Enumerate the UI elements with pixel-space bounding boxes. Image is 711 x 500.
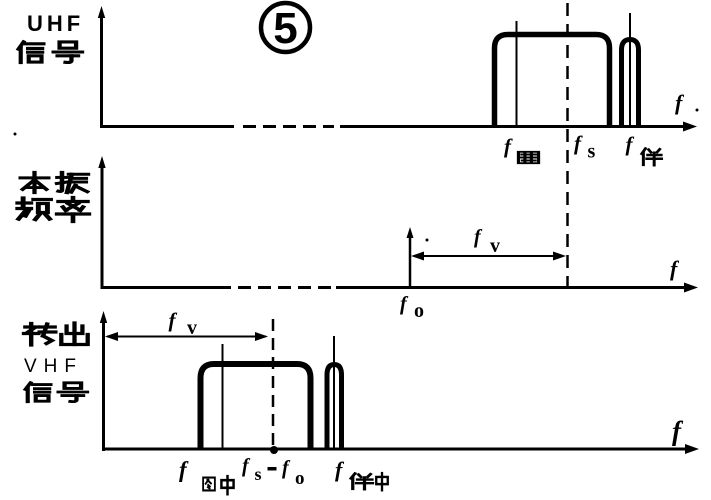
频率 label (18, 198, 89, 222)
dashed line fs (vertical, through top and middle diagrams) (566, 3, 569, 287)
f0 label (middle) (400, 293, 424, 322)
svg-text:f: f (574, 131, 583, 155)
转出 label (24, 323, 88, 345)
信号 label (bottom) (25, 383, 87, 402)
dashed line fs-f0 (bottom) (270, 319, 278, 454)
svg-text:f: f (670, 256, 680, 281)
svg-text:f: f (474, 226, 483, 248)
svg-text:VHF: VHF (24, 356, 83, 377)
sound carrier band (top) (622, 40, 639, 129)
f_tuzhong label (179, 457, 234, 494)
video carrier line (bottom) (222, 344, 224, 448)
f_banzhong label (335, 457, 388, 490)
svg-text:f: f (335, 457, 345, 482)
fv double arrow (middle) (411, 252, 566, 261)
svg-text:o: o (414, 300, 424, 322)
top big band (image channel) (495, 35, 610, 129)
fs-f0 label (242, 455, 305, 489)
top vertical axis (98, 6, 105, 128)
circled figure number 5 (261, 3, 310, 53)
svg-text:f: f (400, 293, 409, 315)
sound carrier line (bottom) (333, 336, 335, 448)
本振 label (21, 172, 88, 192)
f_s label (574, 131, 596, 163)
svg-text:f: f (504, 134, 513, 158)
信号 label (top) (18, 42, 82, 63)
svg-text:f: f (242, 455, 251, 477)
top horizontal axis (100, 122, 697, 132)
video carrier line (top) (516, 21, 518, 126)
svg-text:f: f (179, 457, 189, 482)
svg-text:f: f (169, 308, 178, 332)
bottom horizontal axis (102, 444, 699, 454)
f_tu label (504, 134, 539, 163)
svg-text:f: f (675, 90, 685, 115)
fv label (middle) (474, 226, 500, 257)
middle horizontal axis (101, 283, 698, 293)
sound carrier line (top) (629, 13, 631, 126)
svg-text:UHF: UHF (27, 11, 84, 36)
bottom vertical axis (100, 311, 107, 451)
local oscillator line f0 (407, 227, 414, 287)
svg-text:v: v (490, 235, 500, 257)
sound carrier band (bottom) (327, 365, 342, 451)
svg-text:5: 5 (273, 4, 297, 53)
svg-text:f: f (626, 132, 635, 156)
svg-text:f: f (282, 457, 291, 479)
svg-text:v: v (187, 317, 197, 339)
svg-text:f: f (672, 416, 684, 446)
middle vertical axis (98, 156, 105, 289)
fv double arrow (bottom) (105, 332, 268, 341)
svg-text:o: o (295, 468, 305, 489)
speck dots (14, 133, 17, 136)
svg-text:s: s (588, 141, 596, 163)
svg-text:s: s (255, 464, 262, 484)
fv label (bottom) (169, 308, 198, 339)
f_ban label (626, 132, 662, 165)
bottom big band (VHF image channel) (201, 364, 311, 450)
